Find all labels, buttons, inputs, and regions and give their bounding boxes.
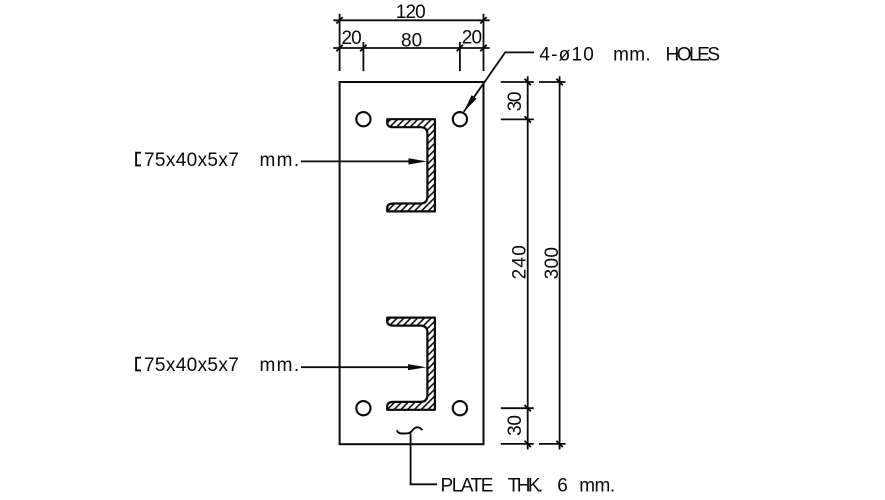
svg-text:mm.: mm. bbox=[260, 150, 300, 171]
svg-text:75x40x5x7: 75x40x5x7 bbox=[144, 150, 239, 171]
svg-text:75x40x5x7: 75x40x5x7 bbox=[144, 355, 239, 376]
svg-text:30: 30 bbox=[505, 415, 526, 436]
svg-text:30: 30 bbox=[505, 92, 526, 112]
svg-text:HOLES: HOLES bbox=[666, 45, 721, 66]
svg-text:240: 240 bbox=[510, 245, 531, 279]
svg-text:mm.: mm. bbox=[613, 45, 651, 66]
svg-text:80: 80 bbox=[401, 31, 422, 52]
svg-text:PLATE: PLATE bbox=[441, 476, 494, 497]
svg-text:120: 120 bbox=[396, 2, 426, 23]
svg-text:THK.: THK. bbox=[508, 476, 544, 497]
svg-text:20: 20 bbox=[342, 28, 362, 49]
svg-text:mm.: mm. bbox=[260, 355, 300, 376]
svg-text:300: 300 bbox=[542, 247, 563, 279]
svg-text:mm.: mm. bbox=[579, 476, 615, 497]
svg-text:20: 20 bbox=[462, 28, 482, 49]
svg-text:6: 6 bbox=[557, 476, 568, 497]
svg-text:4-ø10: 4-ø10 bbox=[539, 45, 593, 66]
